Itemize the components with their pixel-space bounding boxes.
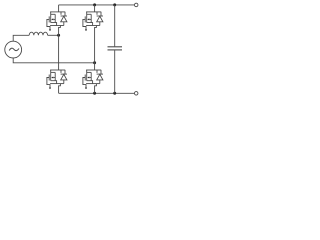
junction dot top rail / right leg xyxy=(93,3,96,6)
ac voltage source V1 xyxy=(5,41,22,58)
capacitor C1 xyxy=(108,5,123,93)
wire inductor to left leg midpoint xyxy=(48,34,59,36)
mosfet Q2 xyxy=(83,12,101,31)
wire source bottom to right leg midpoint xyxy=(13,58,94,63)
diode D2 xyxy=(97,12,103,26)
inductor L1 xyxy=(29,32,47,35)
wire left leg lower (Q3 source jog to bottom rail) xyxy=(59,84,61,93)
junction dot bottom rail / capacitor xyxy=(113,92,116,95)
top rail xyxy=(59,4,135,6)
wire right leg upper (top rail to Q2 drain) xyxy=(94,5,96,12)
wire source top to inductor xyxy=(13,35,29,41)
wire right leg lower (Q4 source jog to bottom rail) xyxy=(95,84,97,93)
terminal + (top right) xyxy=(134,3,138,7)
switch cell lower right xyxy=(83,70,103,89)
diode D1 xyxy=(61,12,67,26)
diode D4 xyxy=(97,70,103,84)
node B junction dot (right leg midpoint) xyxy=(93,61,96,64)
switch cell upper right xyxy=(83,12,103,31)
mosfet Q4 xyxy=(83,70,101,89)
wire left leg middle (Q1 source jog to Q3 drain) xyxy=(59,26,61,71)
junction dot top rail / capacitor xyxy=(113,3,116,6)
bottom rail xyxy=(59,92,135,94)
junction dot bottom rail / right leg xyxy=(93,92,96,95)
diode D3 xyxy=(61,70,67,84)
mosfet Q1 xyxy=(47,12,65,31)
switch cell upper left xyxy=(47,12,67,31)
wire left leg upper (top rail to Q1 drain) xyxy=(58,5,60,12)
node A junction dot (left leg midpoint) xyxy=(57,34,60,37)
terminal - (bottom right) xyxy=(134,92,138,96)
wire right leg middle (Q2 source jog to Q4 drain) xyxy=(95,26,97,71)
switch cell lower left xyxy=(47,70,67,89)
mosfet Q3 xyxy=(47,70,65,89)
